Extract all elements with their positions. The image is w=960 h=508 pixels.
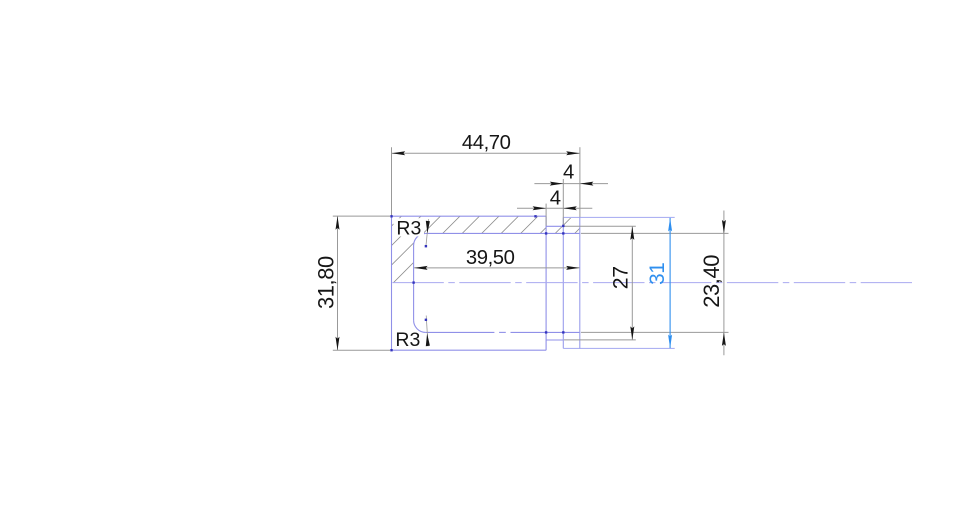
extension line 27 bottom — [564, 339, 636, 341]
dimension 31,80 arrow top — [336, 216, 340, 230]
section hatch: rings — [535, 213, 595, 253]
dimension 39,50 line — [414, 267, 579, 269]
dimension 31 arrow bottom (blue) — [668, 335, 672, 349]
label R3 top background — [394, 218, 425, 236]
dimension 31 arrow top (blue) — [668, 218, 672, 232]
vertex dot bore bottom at ring left — [545, 331, 547, 333]
ring 27 top edge — [546, 225, 563, 227]
bushing right face — [545, 216, 547, 350]
collar right face — [579, 217, 581, 348]
extension line 44,70 / 4 right — [579, 147, 581, 217]
svg-text:31,80: 31,80 — [314, 256, 339, 309]
extension line 4 upper left — [562, 179, 564, 226]
extension line 23,40 top — [581, 232, 729, 234]
svg-text:4: 4 — [563, 162, 574, 184]
bushing outer top edge — [392, 215, 547, 217]
svg-text:R3: R3 — [396, 217, 421, 239]
dimension 4 lower arrow left — [533, 206, 547, 210]
dimension 31,80 line — [337, 216, 339, 350]
bore bottom edge segment 1 — [426, 331, 495, 333]
extension line 31,80 bottom — [333, 349, 390, 351]
leader R3 bottom line — [426, 316, 428, 347]
extension line 23,40 bottom — [581, 331, 729, 333]
dimension 27 arrow bottom — [630, 326, 634, 340]
vertex dot bore top at ring left — [545, 232, 547, 234]
svg-text:23,40: 23,40 — [699, 255, 724, 308]
dimension 44,70 line — [392, 152, 580, 154]
dimension 44,70 arrow left — [392, 151, 406, 155]
bushing left face — [391, 216, 393, 350]
dimension 4 lower arrow right — [563, 206, 577, 210]
bore fillet R3 bottom — [414, 320, 426, 332]
leader R3 top arrow — [426, 221, 430, 234]
vertex dot bore wall at centerline — [412, 281, 414, 283]
fillet center point top — [425, 245, 427, 247]
svg-text:31: 31 — [646, 263, 669, 285]
vertex dot bore bottom at ring right — [562, 331, 564, 333]
bore bottom edge dash — [499, 331, 506, 333]
svg-text:R3: R3 — [395, 329, 420, 351]
vertex dot on top edge — [534, 215, 536, 217]
dimension 27 line — [631, 226, 633, 340]
svg-text:4: 4 — [550, 188, 561, 210]
extension line 27 top — [564, 225, 636, 227]
section hatch: bushing wall — [314, 208, 565, 303]
bushing outer bottom edge — [392, 349, 547, 351]
dimension 31,80 arrow bottom — [336, 337, 340, 351]
bore fillet R3 top — [414, 233, 426, 245]
vertex dot top-left corner — [390, 215, 392, 217]
vertex dot bottom-left corner — [390, 349, 392, 351]
collar and plug top edge — [563, 216, 674, 218]
leader R3 top line — [426, 219, 429, 246]
dimension 39,50 arrow right — [566, 266, 580, 270]
extension line 4 lower left — [545, 204, 547, 226]
extension line 31,80 top — [333, 215, 390, 217]
svg-text:27: 27 — [609, 266, 632, 289]
dimension 39,50 arrow left — [414, 266, 428, 270]
dimension 4 lower line — [517, 207, 592, 209]
dimension 23,40 line — [723, 211, 725, 356]
vertex dot bore top at ring right — [562, 232, 564, 234]
dimension 23,40 arrow top — [722, 220, 726, 234]
vertex dot neck corner — [562, 225, 564, 227]
dimension 23,40 arrow bottom — [722, 332, 726, 346]
bore left wall — [413, 246, 415, 321]
bore bottom edge segment 2 — [511, 331, 581, 333]
extension line 44,70 left — [391, 147, 393, 216]
collar left face — [562, 217, 564, 348]
svg-text:44,70: 44,70 — [462, 132, 511, 154]
dimension 44,70 arrow right — [566, 151, 580, 155]
dimension 4 upper line — [534, 183, 608, 185]
centerline — [392, 282, 912, 284]
fillet center point bottom — [425, 319, 427, 321]
dimension 31 line (blue) — [669, 218, 671, 348]
dimension 4 upper arrow left — [550, 182, 564, 186]
dimension 4 upper arrow right — [580, 182, 594, 186]
svg-text:39,50: 39,50 — [466, 247, 515, 269]
ring 27 bottom edge — [546, 339, 563, 341]
bore top edge — [426, 232, 581, 234]
collar and plug bottom edge — [563, 347, 674, 349]
dimension 27 arrow top — [630, 226, 634, 240]
leader R3 bottom arrow — [426, 333, 430, 346]
